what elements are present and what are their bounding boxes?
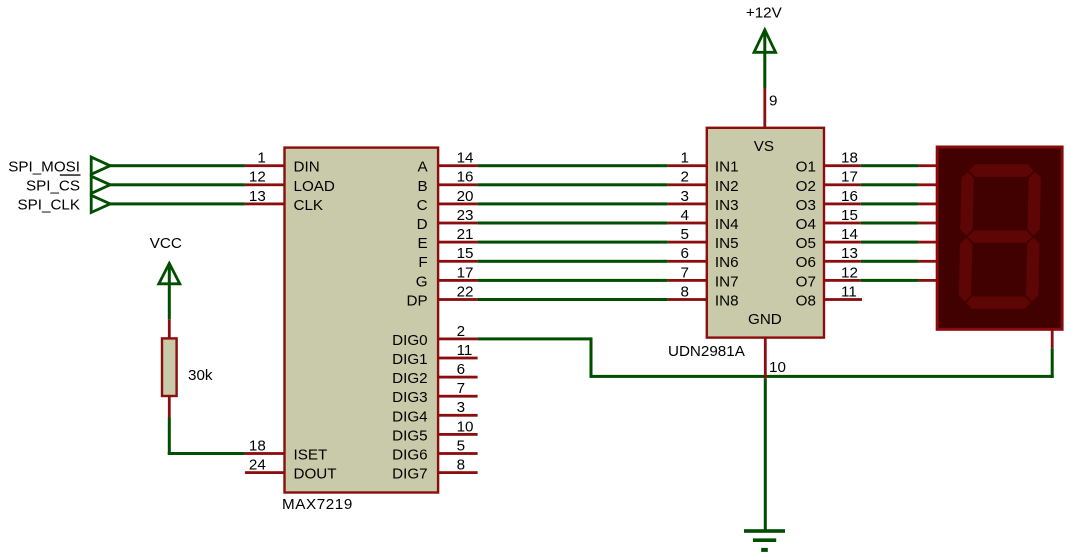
svg-text:7: 7 — [681, 264, 689, 281]
wire GND pin to ground — [764, 379, 767, 531]
UDN2981A VS pin stub pin 9 — [763, 88, 777, 128]
display pin stub segment g — [918, 279, 937, 282]
svg-text:23: 23 — [457, 207, 474, 224]
svg-text:DIG0: DIG0 — [392, 332, 427, 349]
MAX7219 pin stub DIG6 pin 5 — [438, 437, 478, 455]
display pin stub segment c — [918, 203, 937, 206]
wire SPI_CS to MAX7219 — [110, 183, 245, 186]
svg-text:8: 8 — [457, 457, 465, 474]
wire SPI_CLK to MAX7219 — [110, 202, 245, 205]
MAX7219 right pin stub pin 14 — [438, 150, 478, 168]
svg-text:CLK: CLK — [294, 197, 324, 214]
UDN2981A left pin stub pin 7 — [668, 264, 707, 282]
svg-text:F: F — [418, 254, 427, 271]
UDN2981A right pin stub pin 16 — [824, 188, 861, 206]
svg-text:17: 17 — [457, 264, 474, 281]
svg-text:MAX7219: MAX7219 — [282, 496, 353, 513]
svg-text:6: 6 — [681, 245, 689, 262]
svg-text:5: 5 — [681, 226, 689, 243]
svg-text:30k: 30k — [188, 367, 213, 384]
svg-text:1: 1 — [681, 150, 689, 167]
wire segment A to UDN2981A — [478, 164, 668, 167]
svg-text:2: 2 — [457, 323, 465, 340]
svg-text:DOUT: DOUT — [294, 466, 337, 483]
svg-text:SPI_CS: SPI_CS — [26, 178, 80, 195]
UDN2981A right pin stub pin 17 — [824, 169, 861, 187]
IC U2 UDN2981A body — [707, 128, 824, 338]
wire O3 to display — [861, 202, 919, 205]
svg-text:4: 4 — [681, 207, 689, 224]
wire segment E to UDN2981A — [478, 241, 668, 244]
label MAX7219 — [282, 496, 353, 513]
svg-text:SPI_CLK: SPI_CLK — [18, 197, 80, 214]
power symbol VCC — [150, 235, 182, 319]
MAX7219 pin names — [294, 159, 429, 483]
MAX7219 right pin stub pin 17 — [438, 264, 478, 282]
svg-text:IN5: IN5 — [715, 235, 739, 252]
svg-text:IN8: IN8 — [715, 293, 739, 310]
MAX7219 pin stub DIG4 pin 3 — [438, 399, 478, 416]
svg-text:2: 2 — [681, 169, 689, 186]
label UDN2981A — [668, 343, 746, 360]
UDN2981A right pin stub pin 11 — [824, 283, 862, 301]
svg-text:DIG2: DIG2 — [392, 370, 427, 387]
MAX7219 left pin stub pin 12 — [245, 169, 285, 187]
display pin stub segment d — [918, 222, 937, 225]
svg-text:20: 20 — [457, 188, 474, 205]
wire SPI_MOSI to MAX7219 — [110, 164, 245, 167]
svg-text:16: 16 — [457, 169, 474, 186]
wire O1 to display — [861, 164, 919, 167]
svg-text:10: 10 — [769, 359, 786, 376]
7-segment display body — [937, 147, 1062, 329]
svg-text:22: 22 — [457, 283, 474, 300]
svg-text:IN3: IN3 — [715, 197, 739, 214]
svg-text:5: 5 — [457, 437, 465, 454]
svg-text:17: 17 — [841, 169, 858, 186]
display segment d — [966, 297, 1031, 309]
svg-text:O6: O6 — [796, 254, 816, 271]
svg-text:E: E — [417, 235, 427, 252]
display segment f — [960, 172, 974, 236]
display segment g — [967, 230, 1032, 242]
IC U1 MAX7219 body — [285, 148, 439, 493]
input terminal SPI_CLK — [18, 195, 111, 213]
svg-text:8: 8 — [681, 283, 689, 300]
UDN2981A left pin stub pin 4 — [668, 207, 707, 225]
wire O6 to display — [861, 260, 919, 263]
svg-text:O8: O8 — [796, 293, 816, 310]
svg-text:12: 12 — [249, 169, 266, 186]
wire O4 to display — [861, 222, 919, 225]
svg-text:12: 12 — [841, 264, 858, 281]
svg-text:15: 15 — [457, 245, 474, 262]
svg-text:IN6: IN6 — [715, 254, 739, 271]
MAX7219 pin stub DIG2 pin 6 — [438, 361, 478, 379]
svg-text:D: D — [417, 216, 428, 233]
MAX7219 pin stub DIG7 pin 8 — [438, 457, 478, 475]
UDN2981A right pin stub pin 15 — [824, 207, 861, 225]
svg-text:13: 13 — [841, 245, 858, 262]
svg-text:11: 11 — [841, 283, 857, 300]
wire O7 to display — [861, 279, 919, 282]
MAX7219 pin stub DIG1 pin 11 — [438, 342, 478, 360]
wire resistor to ISET — [168, 418, 245, 456]
svg-text:O1: O1 — [796, 159, 816, 176]
svg-text:3: 3 — [681, 188, 689, 205]
svg-text:DIG4: DIG4 — [392, 408, 427, 425]
display common pin stub — [1051, 328, 1054, 348]
svg-text:14: 14 — [457, 150, 474, 167]
svg-text:LOAD: LOAD — [294, 178, 335, 195]
UDN2981A GND pin stub pin 10 — [764, 337, 786, 379]
wire segment D to UDN2981A — [478, 222, 668, 225]
ground symbol — [744, 529, 785, 552]
svg-text:9: 9 — [769, 92, 777, 109]
wire segment G to UDN2981A — [478, 279, 668, 282]
display pin stub segment a — [918, 164, 937, 167]
resistor R1 bottom pin stub — [168, 396, 171, 418]
svg-text:O3: O3 — [796, 197, 816, 214]
svg-text:15: 15 — [841, 207, 858, 224]
svg-text:16: 16 — [841, 188, 858, 205]
UDN2981A pin names — [715, 138, 816, 328]
svg-text:O4: O4 — [796, 216, 816, 233]
svg-text:IN4: IN4 — [715, 216, 739, 233]
svg-text:IN7: IN7 — [715, 273, 739, 290]
input terminal SPI_MOSI — [8, 157, 110, 175]
resistor R1 30k — [162, 338, 213, 396]
svg-text:O7: O7 — [796, 273, 816, 290]
display segment c — [1026, 238, 1040, 302]
svg-text:C: C — [417, 197, 428, 214]
UDN2981A left pin stub pin 6 — [668, 245, 707, 263]
svg-text:VCC: VCC — [150, 235, 182, 252]
MAX7219 right pin stub pin 22 — [438, 283, 478, 301]
svg-text:13: 13 — [249, 188, 266, 205]
resistor R1 top pin stub — [168, 319, 171, 339]
svg-text:18: 18 — [249, 437, 266, 454]
svg-text:10: 10 — [457, 418, 474, 435]
svg-text:14: 14 — [841, 226, 858, 243]
UDN2981A right pin stub pin 13 — [824, 245, 861, 263]
svg-text:1: 1 — [257, 150, 265, 167]
svg-text:DIG6: DIG6 — [392, 447, 427, 464]
svg-text:21: 21 — [457, 226, 474, 243]
display pin stub segment f — [918, 260, 937, 263]
svg-text:DIG1: DIG1 — [392, 351, 427, 368]
wire segment DP to UDN2981A — [478, 298, 668, 301]
UDN2981A right pin stub pin 14 — [824, 226, 861, 244]
svg-text:7: 7 — [457, 380, 465, 397]
display segment b — [1027, 172, 1041, 236]
input terminal SPI_CS — [26, 174, 110, 194]
MAX7219 left pin stub pin 13 — [245, 188, 285, 206]
MAX7219 left pin stub pin 1 — [245, 150, 285, 168]
svg-text:3: 3 — [457, 399, 465, 416]
display pin stub segment e — [918, 241, 937, 244]
svg-text:O5: O5 — [796, 235, 816, 252]
MAX7219 right pin stub pin 16 — [438, 169, 478, 187]
wire DIG0 to display common — [478, 337, 1054, 378]
UDN2981A left pin stub pin 5 — [668, 226, 707, 244]
svg-text:DIG3: DIG3 — [392, 389, 427, 406]
MAX7219 pin stub DIG0 pin 2 — [438, 323, 478, 341]
svg-text:SPI_MOSI: SPI_MOSI — [8, 159, 80, 176]
svg-text:IN2: IN2 — [715, 178, 739, 195]
wire segment F to UDN2981A — [478, 260, 668, 263]
power symbol +12V — [746, 5, 783, 88]
svg-text:24: 24 — [249, 457, 266, 474]
MAX7219 pin stub DIG5 pin 10 — [438, 418, 478, 436]
svg-text:A: A — [417, 159, 428, 176]
MAX7219 pin stub ISET pin 18 — [245, 437, 285, 455]
MAX7219 pin stub DOUT pin 24 — [245, 457, 285, 475]
svg-text:B: B — [417, 178, 427, 195]
UDN2981A left pin stub pin 2 — [668, 169, 707, 187]
svg-text:UDN2981A: UDN2981A — [668, 343, 746, 360]
svg-text:DP: DP — [406, 293, 427, 310]
MAX7219 right pin stub pin 20 — [438, 188, 478, 206]
MAX7219 right pin stub pin 23 — [438, 207, 478, 225]
display segment e — [959, 238, 973, 302]
svg-text:DIN: DIN — [294, 159, 320, 176]
wire segment B to UDN2981A — [478, 183, 668, 186]
UDN2981A right pin stub pin 12 — [824, 264, 861, 282]
wire segment C to UDN2981A — [478, 202, 668, 205]
svg-text:GND: GND — [748, 311, 782, 328]
display segment a — [969, 164, 1034, 176]
svg-text:VS: VS — [754, 138, 774, 155]
svg-text:DIG5: DIG5 — [392, 427, 427, 444]
svg-text:+12V: +12V — [746, 5, 783, 22]
svg-text:IN1: IN1 — [715, 159, 739, 176]
display pin stub segment b — [918, 183, 937, 186]
UDN2981A right pin stub pin 18 — [824, 150, 861, 168]
svg-text:O2: O2 — [796, 178, 816, 195]
svg-text:6: 6 — [457, 361, 465, 378]
wire O2 to display — [861, 183, 919, 186]
MAX7219 right pin stub pin 15 — [438, 245, 478, 263]
wire O5 to display — [861, 241, 919, 244]
svg-text:18: 18 — [841, 150, 858, 167]
MAX7219 right pin stub pin 21 — [438, 226, 478, 244]
UDN2981A left pin stub pin 3 — [668, 188, 707, 206]
svg-text:11: 11 — [457, 342, 473, 359]
UDN2981A left pin stub pin 1 — [668, 150, 707, 168]
svg-text:ISET: ISET — [294, 447, 328, 464]
svg-text:DIG7: DIG7 — [392, 466, 427, 483]
MAX7219 pin stub DIG3 pin 7 — [438, 380, 478, 397]
svg-text:G: G — [416, 273, 428, 290]
UDN2981A left pin stub pin 8 — [668, 283, 707, 301]
